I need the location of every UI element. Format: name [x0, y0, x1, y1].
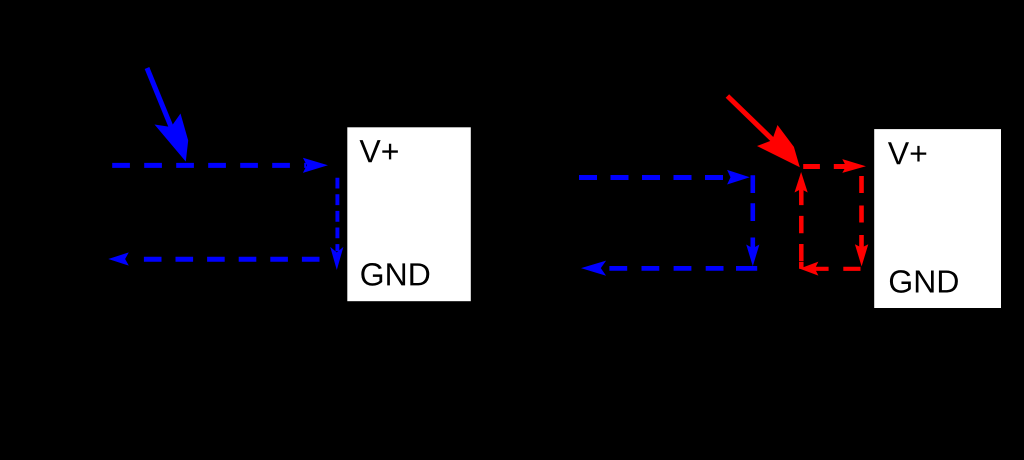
wire: red loop right side, through U2 V+ to GND (dashed red) [855, 176, 868, 266]
wire: current through U1 from V+ to GND (left circuit, dashed blue) [330, 178, 343, 270]
noise injection arrow (left circuit, solid blue) [147, 68, 188, 162]
wire: supply current path into V+ (left circuit, dashed blue) [112, 158, 328, 173]
wire: red loop top, capacitor to V+ (dashed red) [803, 159, 866, 173]
pin label V+ of U2 [888, 142, 926, 164]
wire: return current to source (right circuit, dashed blue) [581, 261, 757, 276]
pin label GND of U1 [361, 263, 429, 286]
wire: supply current from source toward capacitor (right circuit, dashed blue) [579, 170, 750, 185]
IC U2 (right circuit, with bypass capacitor) [874, 129, 1001, 308]
wire: red loop left side, up through bypass capacitor (dashed red) [795, 172, 808, 269]
wire: blue loop turns down before capacitor (right circuit, dashed blue) [746, 175, 759, 266]
noise injection arrow (right circuit, solid red) [727, 96, 799, 167]
IC U1 (left circuit, no bypass capacitor) [347, 127, 471, 301]
wire: return current from GND (left circuit, dashed blue) [108, 252, 319, 265]
wire: red loop bottom, GND back to capacitor (dashed red) [800, 262, 861, 276]
pin label V+ of U1 [360, 140, 398, 162]
pin label GND of U2 [890, 270, 958, 293]
